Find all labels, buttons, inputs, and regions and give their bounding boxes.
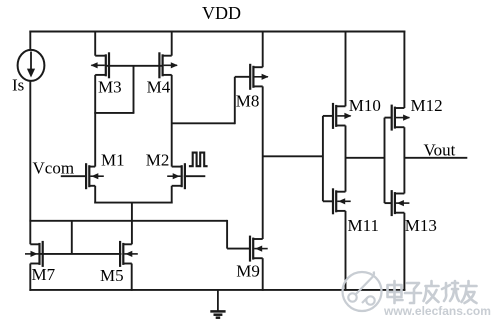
wire M13 gate lead xyxy=(385,202,392,204)
svg-text:Vcom: Vcom xyxy=(33,158,75,177)
wire M12 gate lead xyxy=(385,117,392,119)
wire M8 gate vertical xyxy=(234,77,236,124)
wire M12 drain to VDD xyxy=(403,31,405,108)
svg-text:VDD: VDD xyxy=(202,3,241,23)
wire M8 drain to M9 drain xyxy=(262,86,264,239)
wire gate bus tee xyxy=(71,221,73,254)
svg-text:M4: M4 xyxy=(147,77,171,96)
svg-text:M7: M7 xyxy=(32,265,56,284)
svg-text:M3: M3 xyxy=(98,77,122,96)
svg-text:M2: M2 xyxy=(146,150,170,169)
current source Is xyxy=(18,50,45,81)
wire M3 diode vertical xyxy=(133,66,135,113)
wire VDD rail xyxy=(29,31,405,33)
wire tail to M5 drain xyxy=(131,203,133,245)
ground xyxy=(210,290,225,318)
wire M11 gate lead xyxy=(323,200,332,202)
wire M8 gate lead xyxy=(235,76,251,78)
transistor M8 xyxy=(249,64,269,90)
wire M2 source down xyxy=(171,186,173,204)
transistor M10 xyxy=(332,103,352,129)
svg-text:M11: M11 xyxy=(348,216,380,235)
wire ground rail xyxy=(29,289,405,291)
wire M3 source to VDD xyxy=(94,31,96,56)
svg-text:M10: M10 xyxy=(349,96,381,115)
wire M3 gate to M4 gate xyxy=(106,65,163,67)
wire M10 source to M11 drain xyxy=(345,126,347,192)
transistor M11 xyxy=(332,188,351,214)
wire M1 source down xyxy=(94,186,96,204)
wire Vcom to M1 gate xyxy=(61,175,86,177)
transistor M4 xyxy=(158,52,178,78)
transistor M9 xyxy=(249,236,268,262)
wire bias jog vertical xyxy=(226,220,228,249)
transistor M1 xyxy=(85,163,104,189)
transistor M12 xyxy=(391,105,411,131)
svg-text:M13: M13 xyxy=(405,216,437,235)
wire M13 source to ground xyxy=(403,213,405,291)
pulse signal symbol at M2 gate xyxy=(189,153,208,167)
wire M10 gate lead xyxy=(323,115,332,117)
wire M12 source to M13 drain xyxy=(403,127,405,193)
wire M7 source to ground xyxy=(29,264,31,291)
svg-text:www.elecfans.com: www.elecfans.com xyxy=(383,304,491,318)
wire M10 drain to VDD xyxy=(345,31,347,107)
transistor M7 xyxy=(25,241,44,267)
transistor M2 xyxy=(167,163,186,189)
wire M12 M13 gate vertical xyxy=(384,118,386,204)
wire M3 drain to M1 drain xyxy=(94,75,96,167)
wire M10 M11 gate vertical xyxy=(322,116,324,201)
watermark text dianzifashaoyou xyxy=(388,281,477,303)
wire M4 source to VDD xyxy=(171,31,173,56)
svg-text:M9: M9 xyxy=(236,262,260,281)
wire M8 source to VDD xyxy=(262,31,264,68)
wire common source xyxy=(94,202,172,204)
wire M9 gate lead xyxy=(227,248,250,250)
wire bias rail xyxy=(29,220,227,222)
wire M9 source to ground xyxy=(262,258,264,291)
wire M5 source to ground xyxy=(131,264,133,291)
wire M4 drain to M2 drain xyxy=(171,75,173,167)
wire M4 drain to M8 gate horizontal xyxy=(172,122,235,124)
wire Is top xyxy=(29,31,31,51)
wire M7 M5 gate bus xyxy=(40,253,122,255)
svg-text:M12: M12 xyxy=(411,96,443,115)
svg-text:Is: Is xyxy=(12,75,24,94)
wire M11 source to ground xyxy=(345,211,347,291)
wire M9 drain to M10 gate xyxy=(263,155,323,157)
wire M11 drain to M12 gate xyxy=(346,157,385,159)
wire M2 gate lead xyxy=(184,175,206,177)
svg-text:M5: M5 xyxy=(100,266,124,285)
watermark logo circle xyxy=(343,272,382,312)
transistor M3 xyxy=(91,52,111,78)
svg-text:M1: M1 xyxy=(101,150,125,169)
transistor M13 xyxy=(391,190,410,216)
transistor M5 xyxy=(119,241,138,267)
wire Vout xyxy=(404,157,467,159)
svg-text:M8: M8 xyxy=(236,92,260,111)
svg-text:Vout: Vout xyxy=(424,140,456,159)
wire left column (Is to M7 drain) xyxy=(29,81,31,245)
wire M3 diode horizontal xyxy=(94,112,134,114)
